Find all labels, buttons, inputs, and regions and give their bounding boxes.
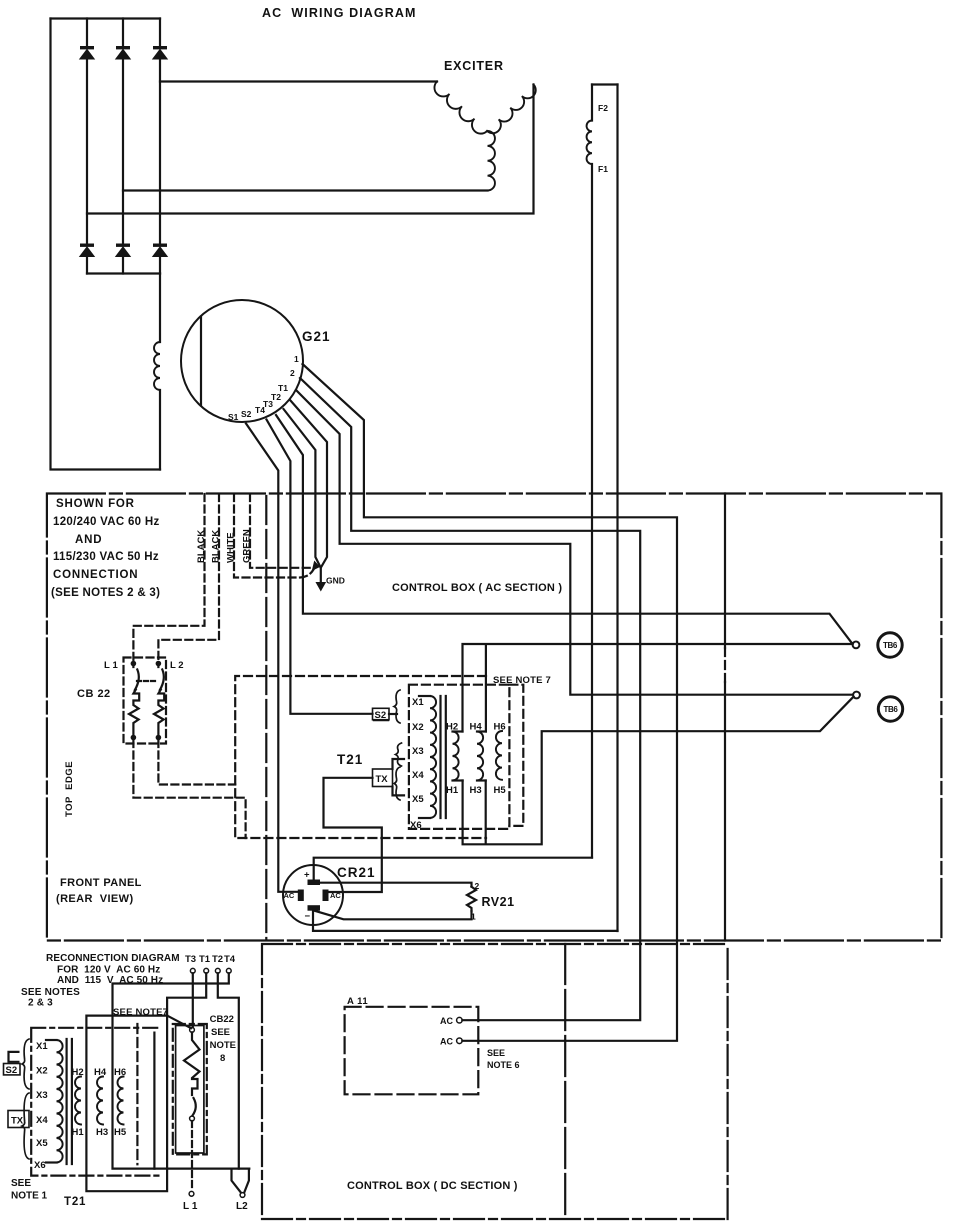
CR21 - terminal [308, 905, 321, 911]
wire T4 to H6 box [113, 973, 250, 1168]
node A11 AC upper [457, 1017, 463, 1023]
svg-text:NOTE: NOTE [210, 1040, 236, 1051]
varistor RV21 [467, 887, 476, 911]
inductor: exciter winding right leg [487, 85, 536, 134]
wire: GND stub [320, 567, 322, 583]
svg-text:T2: T2 [212, 954, 223, 965]
winding H2-H1 copy [75, 1077, 81, 1125]
svg-text:SEE NOTE 7: SEE NOTE 7 [493, 675, 551, 686]
svg-text:S2: S2 [375, 710, 387, 721]
T21 area enclosure (dashed) [235, 676, 486, 838]
wire: G21 lead S1 to CR21 AC [246, 424, 298, 892]
wire WHITE (dashed) to GND [234, 494, 314, 578]
tap TX box copy [8, 1111, 29, 1128]
svg-text:AND: AND [75, 534, 102, 546]
wire CB22 copy to L1 (dashed) [191, 1121, 193, 1191]
L2 funnel [232, 1169, 249, 1193]
svg-text:T3: T3 [185, 954, 196, 965]
tap TX box [373, 769, 393, 787]
svg-text:AC: AC [284, 891, 295, 900]
wire CR21 + to RV21 pin2 [320, 883, 472, 887]
winding H6-H5 copy [118, 1077, 124, 1125]
wire diagonal to CB22 input [167, 1016, 191, 1029]
svg-text:F2: F2 [598, 103, 608, 113]
generator G21 circle [181, 300, 303, 422]
wire: G21 lead 1 to A11 AC (lower) [303, 364, 678, 1041]
svg-text:X5: X5 [36, 1138, 48, 1149]
svg-text:H4: H4 [94, 1067, 107, 1078]
svg-text:X3: X3 [412, 746, 424, 757]
svg-text:CR21: CR21 [337, 865, 376, 880]
svg-text:NOTE 6: NOTE 6 [487, 1060, 520, 1070]
svg-text:X3: X3 [36, 1090, 48, 1101]
terminal board TB6 upper badge [878, 633, 902, 657]
wire CR21 + to F2 [314, 858, 592, 880]
wire TX bracket [393, 759, 405, 795]
svg-text:8: 8 [220, 1053, 225, 1064]
svg-text:TX: TX [376, 774, 389, 785]
diode CR row1 col3 [153, 46, 167, 49]
svg-text:AC WIRING DIAGRAM: AC WIRING DIAGRAM [262, 6, 417, 20]
wire BLACK 1 (dashed) to CB22 L1 [133, 494, 204, 661]
svg-text:H6: H6 [114, 1067, 126, 1078]
svg-text:T1: T1 [199, 954, 211, 965]
S2 bracket copy [9, 1052, 19, 1062]
box around H2 windings (T1 node) [86, 1016, 167, 1192]
wire: G21 lead S2 to T21 S2 tap [267, 420, 373, 714]
svg-text:L 2: L 2 [170, 660, 184, 671]
node CB22 bottom 1 [131, 735, 137, 741]
inductor: generator field coil [154, 342, 160, 390]
diode CR row2 col3 [153, 244, 167, 247]
CB22 copy thermal element [184, 1032, 200, 1095]
svg-text:T4: T4 [255, 405, 265, 415]
svg-text:X4: X4 [36, 1115, 48, 1126]
wire: rectifier top bus [51, 17, 161, 19]
terminal board TB6 lower badge [878, 697, 902, 721]
svg-text:SEE NOTE7: SEE NOTE7 [113, 1007, 168, 1018]
arrow into ground node [313, 562, 320, 571]
svg-text:WHITE: WHITE [226, 532, 237, 563]
diode CR row2 col2 [116, 244, 130, 247]
svg-text:T21: T21 [337, 752, 363, 767]
node T4 terminal [226, 968, 231, 973]
svg-text:CONTROL BOX ( AC SECTION ): CONTROL BOX ( AC SECTION ) [392, 582, 562, 594]
diode CR row2 col1 [80, 244, 94, 247]
inductor: exciter winding center leg [488, 131, 495, 191]
wire: diode column 2 [122, 19, 124, 274]
svg-text:FRONT PANEL: FRONT PANEL [60, 877, 142, 889]
dashed H6 boundary [136, 1024, 138, 1164]
svg-text:S2: S2 [6, 1065, 18, 1076]
wire T3 to CB22 [192, 973, 194, 1027]
wire: G21 lead T3 to GND [284, 409, 321, 567]
brace X1-X3 copy [22, 1039, 29, 1089]
wire S2 box to winding [389, 713, 397, 715]
transformer T21 secondary H4-H3 [477, 730, 486, 732]
control box AC section outline (dash-dot) [47, 494, 942, 941]
transformer T21 secondary H6-H5 [496, 731, 502, 780]
svg-text:H4: H4 [470, 722, 483, 733]
svg-text:EXCITER: EXCITER [444, 59, 504, 73]
wire H-right arm [153, 1033, 155, 1169]
svg-text:S2: S2 [241, 409, 252, 419]
wire: rectifier bottom bus [87, 272, 160, 274]
wire: top row to exciter [160, 80, 437, 82]
see note 7 enclosure (dashed) [509, 685, 523, 826]
wire CB22 pole2 out (dashed) [158, 740, 235, 785]
svg-text:X5: X5 [412, 794, 424, 805]
control box divider (vertical) [724, 494, 726, 649]
svg-text:(REAR VIEW): (REAR VIEW) [56, 893, 134, 905]
diode CR row1 col1 [80, 46, 94, 49]
svg-text:RECONNECTION DIAGRAM: RECONNECTION DIAGRAM [46, 953, 180, 964]
svg-text:+: + [304, 870, 310, 881]
winding H4-H3 copy [97, 1077, 103, 1125]
CB22 pole 2 thermal element [154, 666, 164, 738]
CB22 mechanical link (dashed) [137, 680, 157, 682]
wire F2 lead [591, 85, 593, 858]
DC section partition line [564, 944, 566, 1219]
svg-text:L 1: L 1 [104, 660, 118, 671]
svg-text:2 & 3: 2 & 3 [28, 998, 53, 1009]
rectifier CR21 circle [283, 865, 343, 925]
CR21 AC left terminal [298, 890, 304, 902]
node L2 copy [240, 1193, 245, 1198]
svg-text:CONTROL BOX ( DC SECTION ): CONTROL BOX ( DC SECTION ) [347, 1180, 518, 1192]
wire CB22 pole1 out (dashed) [133, 740, 245, 838]
svg-text:H1: H1 [446, 785, 459, 796]
svg-text:H3: H3 [470, 785, 482, 796]
wire BLACK 2 (dashed) to CB22 L2 [158, 494, 219, 661]
CB22 copy contact arc [193, 1098, 196, 1116]
transformer T21 core [441, 696, 446, 818]
svg-text:H6: H6 [494, 722, 506, 733]
ground arrow [316, 583, 325, 591]
transformer T21 enclosure (dashed) [409, 685, 510, 829]
node CB22 copy input [190, 1028, 195, 1033]
wire: G21 lead T1 to TB6 lower [296, 390, 853, 695]
svg-text:H3: H3 [96, 1127, 108, 1138]
svg-text:SEE: SEE [11, 1178, 31, 1189]
transformer T21 copy primary X1-X6 [46, 1039, 57, 1041]
wire: G21 lead T4 to TB6 upper [276, 415, 852, 644]
T21 copy enclosure (dash-dot) [31, 1028, 158, 1176]
svg-text:(SEE NOTES 2 & 3): (SEE NOTES 2 & 3) [51, 587, 160, 599]
generator G21 stator chord [200, 317, 202, 406]
svg-text:CONNECTION: CONNECTION [53, 569, 138, 581]
brace X3 [396, 743, 402, 766]
svg-text:SEE: SEE [487, 1048, 505, 1058]
svg-text:AC: AC [330, 891, 341, 900]
wire GREEN (dashed) to GND [250, 494, 312, 568]
svg-text:NOTE 1: NOTE 1 [11, 1191, 48, 1202]
node L1 copy [189, 1191, 194, 1196]
wire: G21 lead T2 to GND [290, 400, 327, 567]
wire T1 to H2 box [167, 973, 206, 1015]
svg-text:A 11: A 11 [347, 996, 368, 1007]
node CB22 bottom 2 [156, 735, 162, 741]
control box DC section outline (dash-dot) [262, 944, 728, 1219]
svg-text:2: 2 [475, 881, 480, 891]
svg-text:F1: F1 [598, 164, 608, 174]
node A11 AC lower [457, 1038, 463, 1044]
svg-text:115/230 VAC 50 Hz: 115/230 VAC 50 Hz [53, 551, 159, 563]
svg-text:AC: AC [440, 1016, 453, 1026]
svg-text:BLACK: BLACK [196, 530, 207, 563]
svg-text:1: 1 [294, 354, 299, 364]
CR21 + terminal [308, 880, 321, 886]
wire CR21 - to RV21 pin1 [315, 911, 472, 920]
svg-text:SEE NOTES: SEE NOTES [21, 987, 80, 998]
svg-text:T21: T21 [64, 1196, 86, 1208]
svg-text:H5: H5 [114, 1127, 127, 1138]
svg-text:TOP EDGE: TOP EDGE [64, 761, 75, 817]
CB22 pole 2 contact arc [160, 670, 164, 691]
svg-text:CB 22: CB 22 [77, 688, 111, 700]
svg-text:X4: X4 [412, 770, 424, 781]
brace X1-X2 [394, 690, 400, 723]
svg-text:SHOWN FOR: SHOWN FOR [56, 498, 135, 510]
svg-text:FOR 120 V AC 60 Hz: FOR 120 V AC 60 Hz [57, 965, 160, 976]
CB22 pole 1 contact arc [135, 670, 139, 691]
regulator A11 outline (dashed) [345, 1007, 479, 1095]
svg-text:G21: G21 [302, 329, 331, 344]
svg-text:H2: H2 [446, 722, 458, 733]
svg-text:T4: T4 [224, 954, 236, 965]
svg-text:1: 1 [471, 912, 476, 922]
node T3 terminal [190, 968, 195, 973]
svg-text:TB6: TB6 [883, 641, 898, 650]
wire: down to field coil [159, 274, 161, 470]
wire F1 lead [616, 85, 618, 932]
node TB6 lower terminal [853, 692, 860, 699]
svg-text:H1: H1 [72, 1127, 85, 1138]
node L1 terminal [131, 661, 137, 667]
transformer T21 primary winding X1-X6 [419, 695, 430, 697]
node CB22 copy output [190, 1116, 195, 1121]
svg-text:2: 2 [290, 368, 295, 378]
svg-text:TX: TX [11, 1116, 24, 1127]
node TB6 upper terminal [853, 642, 860, 649]
wire T2 to L2 lead [218, 973, 239, 1168]
svg-text:AC: AC [440, 1037, 453, 1047]
inner dashed edge of AC section [265, 496, 267, 940]
brace X3-X5 copy [22, 1093, 29, 1159]
svg-text:BLACK: BLACK [211, 530, 222, 563]
svg-text:SEE: SEE [211, 1027, 230, 1038]
transformer T21 copy core [67, 1039, 72, 1164]
wire: G21 lead 2 to A11 AC (upper) [300, 378, 640, 1020]
brace X4-X5 [394, 767, 400, 800]
svg-text:X2: X2 [36, 1066, 48, 1077]
diode CR row1 col2 [116, 46, 130, 49]
svg-text:GREEN: GREEN [242, 529, 253, 563]
CB22 pole 1 thermal element [129, 666, 139, 738]
svg-text:H2: H2 [72, 1067, 84, 1078]
wire: diode column 1 [86, 19, 88, 274]
svg-text:S1: S1 [228, 412, 239, 422]
wire H1/H3 to TB6 lower [463, 697, 854, 845]
wire H2/H4 to TB6 upper [463, 644, 853, 732]
circuit breaker CB22 outline (dashed) [124, 658, 167, 744]
wire: exciter center leg to rectifier mid bus [123, 189, 488, 191]
svg-text:−: − [305, 911, 311, 922]
node L2 terminal [156, 661, 162, 667]
wire: rectifier left loop [51, 19, 161, 470]
inductor: field coil F2-F1 [587, 121, 592, 165]
svg-text:X1: X1 [412, 697, 424, 708]
transformer T21 secondary H2-H1 [453, 730, 463, 732]
breaker CB22 copy outline [176, 1026, 204, 1154]
wire TX to CR21 AC right [324, 778, 382, 892]
svg-text:X6: X6 [410, 820, 422, 831]
tap S2 box [373, 708, 390, 719]
svg-text:RV21: RV21 [482, 895, 515, 909]
svg-text:CB22: CB22 [210, 1014, 234, 1025]
svg-text:H5: H5 [494, 785, 507, 796]
node T2 terminal [215, 968, 220, 973]
svg-text:120/240 VAC 60 Hz: 120/240 VAC 60 Hz [53, 516, 160, 528]
svg-text:L2: L2 [236, 1201, 248, 1212]
wire: exciter right leg down and to rectifier lower bus [87, 85, 534, 214]
tap S2 box copy [4, 1064, 21, 1075]
svg-text:GND: GND [326, 576, 345, 586]
node F2/F1 top bend [592, 83, 618, 85]
inductor: exciter winding left leg [434, 82, 487, 134]
svg-text:L 1: L 1 [183, 1201, 198, 1212]
CR21 AC right terminal [323, 890, 329, 902]
svg-text:X1: X1 [36, 1041, 48, 1052]
svg-text:X6: X6 [34, 1160, 46, 1171]
svg-text:TB6: TB6 [884, 705, 899, 714]
wire CR21 - to F1 [313, 911, 618, 931]
svg-text:X2: X2 [412, 722, 424, 733]
node T1 terminal [204, 968, 209, 973]
wire: diode column 3 [159, 19, 161, 274]
